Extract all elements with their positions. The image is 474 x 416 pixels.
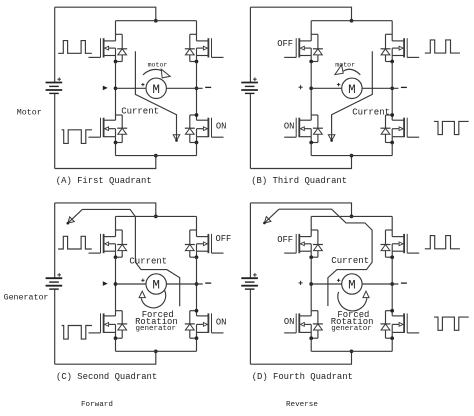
- wire mid rail left to motor (B): [311, 87, 342, 89]
- motor rotation arrow (B): [335, 65, 360, 75]
- transistor Q8 (B): [392, 88, 419, 142]
- current path wire (A): [135, 51, 176, 140]
- label Forward: [81, 401, 113, 409]
- transistor Q16 (D): [392, 284, 419, 338]
- wire Q8 source to bottom rail (B): [391, 143, 393, 156]
- svg-text:Generator: Generator: [4, 293, 49, 302]
- wire top rail (D): [311, 215, 392, 217]
- wire battery - to bottom rail (A): [55, 156, 156, 169]
- wire battery - to bottom rail (D): [250, 351, 351, 364]
- gate PWM waveform of Q6 (B): [425, 40, 460, 53]
- label motor - terminal (B): [401, 86, 407, 88]
- gate PWM waveform of Q9 (C): [58, 236, 92, 249]
- label motor + terminal (B): [337, 83, 340, 86]
- label OFF at Q5 (B): [277, 39, 293, 49]
- svg-text:M: M: [348, 83, 356, 97]
- junction at Q8 drain/diode branch (B): [390, 113, 394, 117]
- node mid-right junction (C): [195, 282, 199, 286]
- svg-text:motor: motor: [335, 62, 355, 69]
- node mid-left junction (B): [309, 86, 313, 90]
- mark current direction at node (C): [103, 282, 107, 285]
- wire Q2 source to mid rail (A): [196, 62, 198, 89]
- wire Q11 source to bottom rail (C): [115, 338, 117, 351]
- wire Q5 source to mid rail (B): [310, 62, 312, 89]
- svg-text:(C) Second Quadrant: (C) Second Quadrant: [56, 372, 157, 382]
- body diode of Q6 (B): [381, 34, 393, 61]
- node Q7 source junction (B): [309, 141, 313, 145]
- label motor rotation (B): [335, 62, 355, 69]
- body diode of Q4 (A): [185, 115, 197, 143]
- svg-text:Motor: Motor: [17, 108, 42, 117]
- wire motor to mid rail right (A): [166, 87, 202, 89]
- svg-text:(A) First Quadrant: (A) First Quadrant: [56, 176, 152, 186]
- caption (A) First Quadrant: [56, 176, 152, 186]
- wire battery - to bottom rail (B): [250, 156, 351, 169]
- node mid-right junction (A): [195, 86, 199, 90]
- label motor + terminal (A): [141, 83, 144, 86]
- junction at Q16 drain/diode branch (D): [390, 309, 394, 313]
- transistor Q12 (C): [197, 284, 224, 338]
- body diode of Q9 (C): [116, 230, 128, 257]
- transistor Q6 (B): [392, 21, 419, 62]
- label Rotation (C): [135, 317, 178, 327]
- wire motor to mid rail right (D): [362, 283, 398, 285]
- node Q4 source junction (A): [195, 141, 199, 145]
- node top rail junction (B): [350, 19, 354, 23]
- label ON at Q4 (A): [216, 121, 227, 131]
- wire bottom rail (B): [311, 155, 392, 157]
- motor M4 (D): [342, 274, 362, 294]
- transistor Q2 (A): [197, 21, 224, 62]
- node mid-left junction (D): [309, 282, 313, 286]
- node top rail junction (D): [350, 215, 354, 219]
- motor M3 (C): [146, 274, 166, 294]
- svg-text:(D) Fourth Quadrant: (D) Fourth Quadrant: [252, 372, 353, 382]
- node top rail junction (C): [154, 215, 158, 219]
- node Q1 source junction (A): [114, 60, 118, 64]
- svg-text:Current: Current: [331, 256, 369, 266]
- transistor Q13 (D): [284, 216, 311, 257]
- transistor Q11 (C): [89, 284, 116, 338]
- caption (B) Third Quadrant: [251, 176, 347, 186]
- node Q9 source junction (C): [114, 255, 118, 259]
- wire Q13 source to mid rail (D): [310, 257, 312, 284]
- battery V1 (A): [46, 7, 63, 168]
- svg-text:generator: generator: [331, 325, 372, 333]
- svg-text:OFF: OFF: [277, 39, 293, 49]
- label Forced (C): [142, 310, 174, 320]
- wire Q3 source to bottom rail (A): [115, 143, 117, 156]
- motor M1 (A): [146, 78, 166, 98]
- junction at Q12 drain/diode branch (C): [195, 309, 199, 313]
- node Q12 source junction (C): [195, 336, 199, 340]
- label motor - terminal (D): [401, 282, 407, 284]
- node Q3 source junction (A): [114, 141, 118, 145]
- svg-text:Reverse: Reverse: [286, 401, 318, 409]
- wire bottom rail (C): [116, 350, 197, 352]
- wire battery + to top rail (A): [55, 7, 156, 21]
- motor M2 (B): [342, 78, 362, 98]
- node bottom rail junction (A): [154, 154, 158, 158]
- node bottom rail junction (B): [350, 154, 354, 158]
- transistor Q1 (A): [89, 21, 116, 62]
- node mid-left junction (A): [114, 86, 118, 90]
- wire Q15 source to bottom rail (D): [310, 338, 312, 351]
- wire Q6 source to mid rail (B): [391, 62, 393, 89]
- svg-text:motor: motor: [148, 62, 168, 69]
- svg-text:(B) Third Quadrant: (B) Third Quadrant: [251, 176, 347, 186]
- svg-text:OFF: OFF: [216, 234, 232, 244]
- svg-text:ON: ON: [284, 121, 295, 131]
- wire Q7 source to bottom rail (B): [310, 143, 312, 156]
- body diode of Q14 (D): [381, 230, 393, 257]
- mark current direction at node (A): [103, 86, 107, 89]
- label motor + terminal (D): [337, 279, 340, 282]
- label Motor (A): [17, 108, 42, 117]
- wire bottom rail (A): [116, 155, 197, 157]
- transistor Q10 (C): [197, 216, 224, 257]
- gate PWM waveform of Q16 (D): [434, 317, 469, 330]
- svg-text:Current: Current: [121, 107, 159, 117]
- node Q14 source junction (D): [390, 255, 394, 259]
- body diode of Q2 (A): [185, 34, 197, 61]
- generator rotation arrow (C): [139, 290, 166, 308]
- current path wire (B): [332, 51, 373, 140]
- label Reverse: [286, 401, 318, 409]
- wire battery + to top rail (C): [55, 203, 156, 217]
- label OFF at Q13 (D): [277, 235, 293, 245]
- wire mid rail left to motor (A): [116, 87, 147, 89]
- node Q15 source junction (D): [309, 336, 313, 340]
- current direction arrow (A): [173, 135, 180, 142]
- label Generator (C): [4, 293, 49, 302]
- gate PWM waveform of Q3 (A): [62, 130, 92, 144]
- body diode of Q3 (A): [116, 115, 128, 143]
- transistor Q4 (A): [197, 88, 224, 142]
- body diode of Q11 (C): [116, 311, 128, 339]
- wire Q14 source to mid rail (D): [391, 257, 393, 284]
- node bottom rail junction (D): [350, 349, 354, 353]
- node Q16 source junction (D): [390, 336, 394, 340]
- label Current (D): [331, 256, 369, 266]
- label generator (C): [136, 325, 177, 333]
- transistor Q15 (D): [284, 284, 311, 338]
- label + at mid-left node (B): [299, 85, 303, 89]
- wire Q10 source to mid rail (C): [196, 257, 198, 284]
- body diode of Q13 (D): [311, 230, 323, 257]
- transistor Q5 (B): [284, 21, 311, 62]
- current direction arrow (B): [328, 135, 335, 142]
- wire Q4 source to bottom rail (A): [196, 143, 198, 156]
- body diode of Q16 (D): [381, 311, 393, 339]
- svg-text:Current: Current: [352, 107, 390, 117]
- body diode of Q10 (C): [185, 230, 197, 257]
- node Q11 source junction (C): [114, 336, 118, 340]
- wire top rail (C): [116, 215, 197, 217]
- wire Q16 source to bottom rail (D): [391, 338, 393, 351]
- wire mid rail left to motor (C): [116, 283, 147, 285]
- wire bottom rail (D): [311, 350, 392, 352]
- label + at mid-left node (D): [299, 281, 303, 285]
- wire battery + to top rail (B): [250, 7, 351, 21]
- label generator (D): [331, 325, 372, 333]
- label motor rotation (A): [148, 62, 168, 69]
- gate PWM waveform of Q14 (D): [425, 236, 460, 249]
- node mid-right junction (B): [390, 86, 394, 90]
- body diode of Q15 (D): [311, 311, 323, 339]
- body diode of Q7 (B): [311, 115, 323, 143]
- wire Q12 source to bottom rail (C): [196, 338, 198, 351]
- generator rotation arrow (D): [338, 291, 369, 311]
- wire motor to mid rail right (B): [362, 87, 398, 89]
- wire top rail (B): [311, 20, 392, 22]
- label motor - terminal (A): [205, 86, 211, 88]
- wire Q1 source to mid rail (A): [115, 62, 117, 89]
- svg-text:M: M: [152, 83, 160, 97]
- svg-text:ON: ON: [216, 317, 227, 327]
- node top rail junction (A): [154, 19, 158, 23]
- node bottom rail junction (C): [154, 349, 158, 353]
- svg-text:M: M: [348, 279, 356, 293]
- gate PWM waveform of Q11 (C): [62, 326, 92, 340]
- gate PWM waveform of Q1 (A): [58, 41, 92, 54]
- body diode of Q1 (A): [116, 34, 128, 61]
- svg-text:Current: Current: [129, 257, 167, 267]
- svg-text:ON: ON: [284, 317, 295, 327]
- wire top rail (A): [116, 20, 197, 22]
- wire mid rail left to motor (D): [311, 283, 342, 285]
- svg-text:OFF: OFF: [277, 235, 293, 245]
- label ON at Q7 (B): [284, 121, 295, 131]
- label ON at Q12 (C): [216, 317, 227, 327]
- label Current (A): [121, 107, 159, 117]
- current path wire (C): [68, 209, 179, 306]
- wire Q9 source to mid rail (C): [115, 257, 117, 284]
- body diode of Q12 (C): [185, 311, 197, 339]
- label Forced (D): [337, 310, 369, 320]
- transistor Q14 (D): [392, 216, 419, 257]
- current path wire (D): [265, 209, 372, 306]
- node Q5 source junction (B): [309, 60, 313, 64]
- transistor Q7 (B): [284, 88, 311, 142]
- junction at Q4 drain/diode branch (A): [195, 113, 199, 117]
- wire battery - to bottom rail (C): [55, 351, 156, 364]
- svg-text:M: M: [152, 279, 160, 293]
- body diode of Q5 (B): [311, 34, 323, 61]
- body diode of Q8 (B): [381, 115, 393, 143]
- battery V4 (D): [241, 203, 258, 364]
- svg-text:ON: ON: [216, 121, 227, 131]
- wire battery + to top rail (D): [250, 203, 351, 217]
- node mid-right junction (D): [390, 282, 394, 286]
- wire motor to mid rail right (C): [166, 283, 202, 285]
- label ON at Q15 (D): [284, 317, 295, 327]
- transistor Q3 (A): [89, 88, 116, 142]
- node Q8 source junction (B): [390, 141, 394, 145]
- label Current (C): [129, 257, 167, 267]
- label motor + terminal (C): [141, 279, 144, 282]
- transistor Q9 (C): [89, 216, 116, 257]
- gate PWM waveform of Q8 (B): [434, 121, 469, 134]
- node mid-left junction (C): [114, 282, 118, 286]
- node Q13 source junction (D): [309, 255, 313, 259]
- battery V3 (C): [46, 203, 63, 364]
- caption (C) Second Quadrant: [56, 372, 157, 382]
- caption (D) Fourth Quadrant: [252, 372, 353, 382]
- node Q10 source junction (C): [195, 255, 199, 259]
- label OFF at Q10 (C): [216, 234, 232, 244]
- svg-text:generator: generator: [136, 325, 177, 333]
- battery V2 (B): [241, 7, 258, 168]
- label Current (B): [352, 107, 390, 117]
- node Q2 source junction (A): [195, 60, 199, 64]
- label motor - terminal (C): [205, 282, 211, 284]
- node Q6 source junction (B): [390, 60, 394, 64]
- svg-text:Forward: Forward: [81, 401, 113, 409]
- label Rotation (D): [331, 317, 374, 327]
- current direction arrow (C): [67, 217, 75, 225]
- current direction arrow (D): [263, 217, 271, 225]
- motor rotation arrow (A): [143, 69, 170, 78]
